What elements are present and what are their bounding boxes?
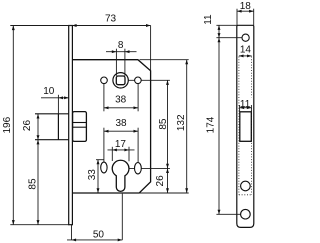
dimension 50 extensions [71,225,73,240]
svg-text:132: 132 [176,114,187,131]
dimension 14 line [239,55,252,57]
svg-text:11: 11 [240,99,251,110]
recess channel dashed right [251,57,253,195]
side plate outline [237,25,254,227]
faceplate (front strip) [69,26,73,225]
svg-text:18: 18 [240,1,252,12]
dimension 11 top extension [216,24,236,26]
svg-text:38: 38 [115,118,127,129]
dimension 11 cutout line [240,107,252,109]
latch bolt body (inside case) [73,112,87,142]
dimension 8 extensions [115,49,117,76]
cylinder screw oval left [101,162,107,173]
dimension 38 upper extensions [103,84,105,112]
bottom screw hole [241,209,251,219]
latch cutout in side plate [240,112,252,142]
dimension 33 extension [96,159,104,161]
svg-text:38: 38 [115,95,127,106]
handle screw hole left [101,77,108,84]
euro cylinder hole [112,160,129,191]
dimension 11/174 shared line [218,25,220,214]
dimension 38 lower extensions [103,128,105,163]
dimension 10 extension [57,95,59,114]
recess channel dashed bottom [239,194,252,196]
dimension 50 line [67,239,122,241]
leader to bottom screw hole [216,213,245,215]
dimension 33 line [97,160,99,193]
recess channel dashed left [238,57,240,195]
dimension 11 cutout extensions [239,105,241,112]
svg-text:174: 174 [206,116,217,133]
svg-text:10: 10 [43,86,55,97]
leader line through cylinder row [128,167,170,169]
dimension 132 line [186,60,188,193]
svg-text:85: 85 [28,178,39,190]
dimension 26 left line [37,114,39,225]
handle screw hole right [135,77,142,84]
dimension 38 lower line [104,130,138,132]
dimension 10 line [41,97,69,99]
cylinder screw oval right [135,163,142,174]
dimension 17 line [108,149,135,151]
dimension 73 line [10,25,150,27]
svg-text:14: 14 [240,44,252,55]
svg-text:50: 50 [93,230,105,241]
spindle hole circle [113,73,128,88]
svg-text:196: 196 [2,116,13,133]
dimension 17 extensions [111,147,113,161]
dimension 8 line [106,51,137,53]
dimension 18 extensions [236,9,238,26]
svg-text:33: 33 [87,169,98,181]
middle bolt hole [241,181,251,191]
leader line through handle hole row [127,79,170,81]
svg-text:8: 8 [118,40,124,51]
svg-text:17: 17 [115,139,127,150]
leader to top screw hole [216,37,245,39]
svg-text:26: 26 [22,120,33,132]
svg-text:85: 85 [158,118,169,130]
svg-text:11: 11 [203,14,214,25]
dimension 196 line [12,26,14,225]
latch bolt head (protruding left of faceplate) [35,113,69,115]
spindle square 8mm [116,76,125,85]
case top extension to 132 [140,59,189,61]
lock case outline (front view) [72,60,150,193]
dimension 85 right line [167,80,169,193]
dimension 38 upper line [104,107,138,109]
baseline extension at faceplate bottom [10,224,69,226]
case bottom extension [139,192,189,194]
top screw hole [242,34,249,41]
dimension 18 line [237,10,254,12]
dimension 11 cutout white backing [240,97,253,107]
svg-text:26: 26 [155,175,166,187]
svg-text:73: 73 [105,14,117,25]
